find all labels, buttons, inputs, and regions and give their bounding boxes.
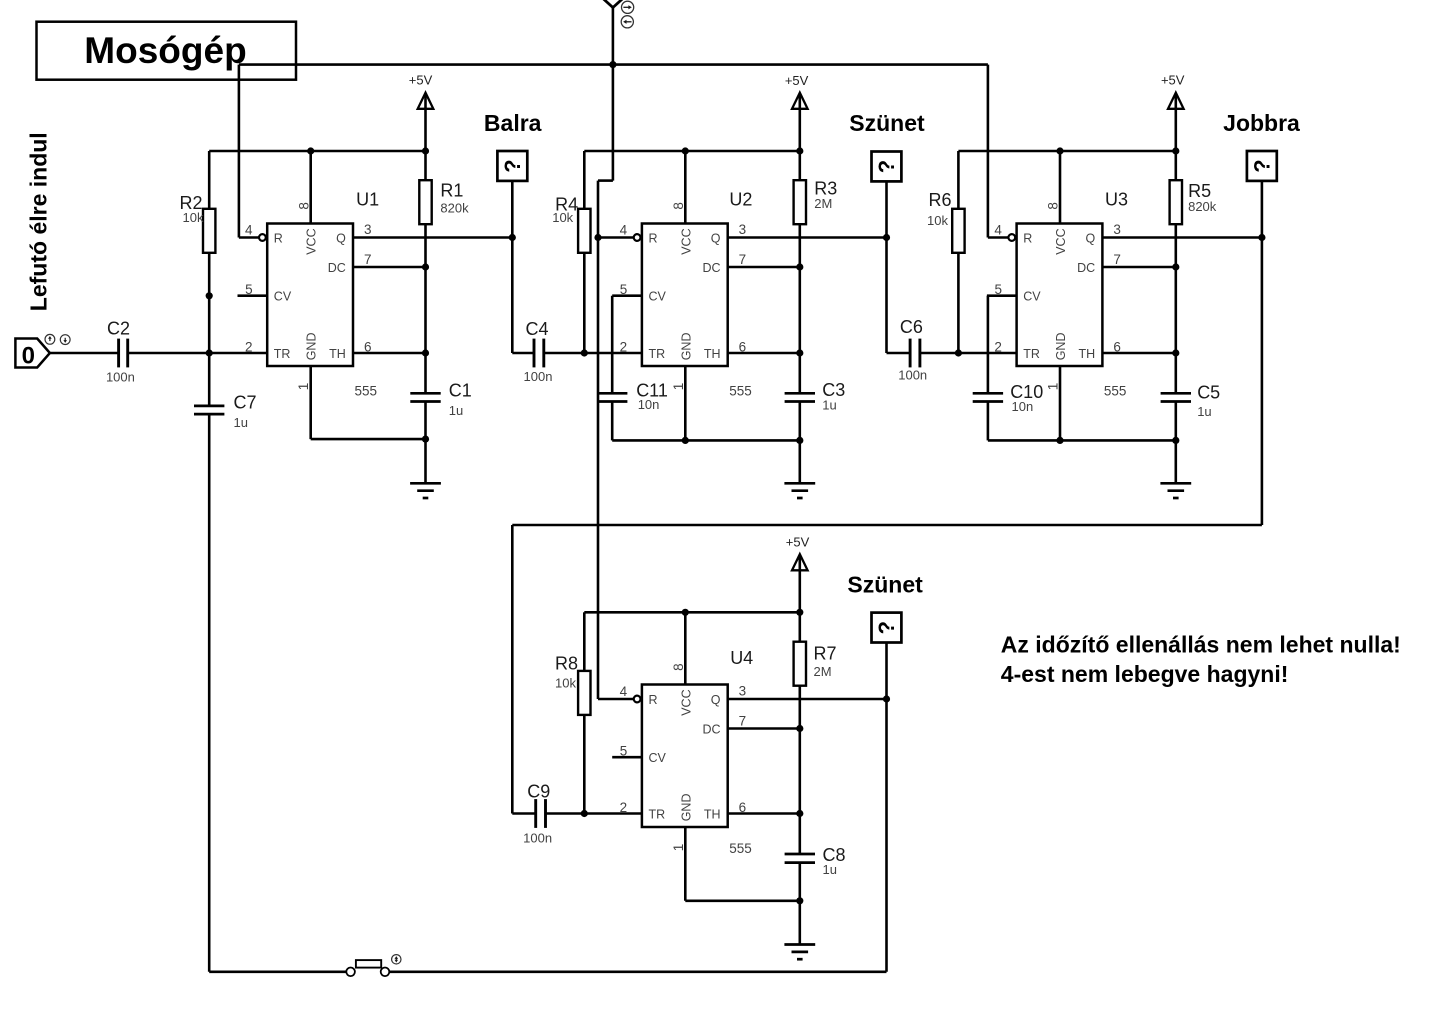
resistor R1 (820k) (424, 151, 427, 180)
svg-text:R: R (274, 232, 283, 246)
svg-text:Lefutó élre indul: Lefutó élre indul (26, 132, 52, 311)
svg-text:10k: 10k (555, 676, 576, 691)
svg-text:TH: TH (704, 347, 721, 361)
wire: pin 8 VCC (U1) (309, 151, 312, 224)
svg-text:C7: C7 (234, 392, 257, 412)
svg-text:C9: C9 (527, 782, 550, 802)
svg-text:Q: Q (711, 693, 721, 707)
inverter bubble pin 4 (U4) (634, 696, 641, 703)
svg-text:?: ? (500, 159, 525, 172)
junction: R4 to TR row (581, 349, 588, 356)
wire: pin 6 threshold (U1) (353, 352, 426, 355)
inverter bubble pin 4 (U2) (634, 234, 641, 241)
pushbutton switch (346, 968, 355, 977)
svg-text:7: 7 (364, 252, 372, 267)
wire: C4 to U2 TR (544, 352, 642, 355)
wire: Szünet box to U2 Q (885, 181, 888, 237)
capacitor C5 (1u) (1161, 392, 1191, 395)
wire: pin 8 VCC (U4) (684, 612, 687, 684)
svg-text:1u: 1u (822, 397, 836, 412)
svg-text:7: 7 (739, 252, 747, 267)
svg-text:GND: GND (305, 333, 319, 361)
wire: +5V rail (U3) (958, 150, 1175, 153)
inverter bubble pin 4 (U3) (1008, 234, 1015, 241)
svg-text:TR: TR (274, 347, 291, 361)
svg-text:4: 4 (620, 684, 628, 699)
capacitor C3 (1u) (785, 392, 815, 395)
svg-text:U3: U3 (1105, 189, 1128, 209)
svg-text:CV: CV (274, 290, 292, 304)
+5V power symbol (U4) (792, 554, 808, 570)
wire: +5V rail (U4) (584, 611, 800, 614)
svg-text:7: 7 (1113, 252, 1121, 267)
svg-text:6: 6 (739, 339, 747, 354)
wire: U1 GND net horizontal (311, 438, 426, 441)
svg-text:CV: CV (1023, 290, 1041, 304)
svg-text:DC: DC (702, 723, 720, 737)
wire: pin 5 CV stub (U4) (612, 756, 642, 759)
svg-text:R: R (649, 693, 658, 707)
svg-text:C2: C2 (107, 319, 130, 339)
555 timer IC U1 body (267, 224, 353, 367)
+5V power symbol (U1) (418, 93, 434, 109)
wire: pin 5 CV stub (U2) (612, 294, 642, 297)
555 timer IC U4 body (642, 685, 728, 828)
svg-text:TR: TR (1023, 347, 1040, 361)
svg-text:3: 3 (739, 222, 747, 237)
svg-text:CV: CV (649, 290, 667, 304)
svg-text:+5V: +5V (409, 73, 433, 88)
svg-text:VCC: VCC (305, 228, 319, 254)
junction: R2 to TR row (206, 349, 213, 356)
svg-text:1u: 1u (234, 415, 248, 430)
wire: pin 8 VCC (U3) (1059, 151, 1062, 224)
svg-text:R7: R7 (814, 643, 837, 663)
555 timer IC U3 body (1017, 224, 1103, 367)
wire: reset net jog to U2/U4 pin 4 feed (612, 65, 615, 181)
svg-text:U4: U4 (730, 648, 753, 668)
capacitor C11 (10n) on U2 CV (611, 296, 614, 394)
junction: U2 Q node (883, 234, 890, 241)
junction: R6 to TR row (955, 349, 962, 356)
svg-text:8: 8 (671, 663, 686, 671)
wire: pin 7 discharge (U1) (353, 266, 426, 269)
wire: U1 Q down to C4 (511, 238, 514, 354)
svg-text:+5V: +5V (1161, 73, 1185, 88)
svg-text:5: 5 (620, 282, 628, 297)
svg-text:DC: DC (1077, 261, 1095, 275)
wire: U2 Q down to C6 (885, 238, 888, 354)
svg-text:8: 8 (1046, 202, 1061, 210)
wire: Balra box to U1 Q (511, 181, 514, 238)
capacitor C6 (100n) (909, 339, 912, 368)
title box Mosógép (37, 22, 297, 80)
svg-text:2: 2 (994, 339, 1002, 354)
junction: GND net (U1) (422, 436, 429, 443)
wire: pin 4 reset (U2) (598, 236, 634, 239)
+5V power symbol (U2) (792, 93, 808, 109)
svg-text:820k: 820k (440, 201, 469, 216)
svg-text:?: ? (1249, 159, 1274, 172)
junction: pin 7 to R3 (796, 263, 803, 270)
svg-text:10k: 10k (927, 213, 948, 228)
test point box Szünet bottom (?) (872, 613, 902, 643)
svg-text:C4: C4 (525, 319, 548, 339)
svg-text:555: 555 (1104, 383, 1127, 398)
junction: U1 Q node (509, 234, 516, 241)
wire: Jobbra box to U3 Q (1261, 181, 1264, 238)
ground symbol (U4) (784, 943, 815, 946)
svg-text:820k: 820k (1188, 199, 1217, 214)
wire: pin 6 threshold (U4) (728, 812, 800, 815)
junction: reset net / top connector (609, 61, 616, 68)
wire: TR row from C2 to U1 pin 2 (128, 352, 268, 355)
svg-text:U2: U2 (729, 190, 752, 210)
junction: R7 to rail (796, 609, 803, 616)
capacitor C1 (1u) (410, 392, 440, 395)
svg-text:TR: TR (649, 347, 666, 361)
junction: U3 GND pin (1056, 437, 1063, 444)
wire: +5V rail (U1) (209, 150, 425, 153)
junction: pin 7 to R7 (796, 725, 803, 732)
wire: U4 Q down to bottom rail (885, 699, 888, 972)
svg-text:0: 0 (22, 342, 35, 369)
junction: pin 6 to R1 (422, 349, 429, 356)
svg-text:6: 6 (1113, 339, 1121, 354)
wire: reset net drop to U3 pin 4 (987, 65, 990, 238)
resistor R8 (10k) (583, 612, 586, 671)
junction: R8 to TR row (581, 810, 588, 817)
test point box Balra (?) (497, 151, 527, 181)
wire: reset net horizontal rail (239, 63, 988, 66)
switch action badge (392, 955, 401, 964)
svg-text:GND: GND (679, 333, 693, 361)
wire: pin 8 VCC (U2) (684, 151, 687, 224)
wire: U4 GND net horizontal (685, 899, 800, 902)
svg-text:Q: Q (336, 232, 346, 246)
svg-text:Jobbra: Jobbra (1223, 110, 1300, 136)
wire: reset net vertical from title box (238, 65, 241, 238)
connector 0 (input pin) (15, 339, 50, 368)
resistor R2 (10k) (208, 151, 211, 209)
svg-text:4: 4 (245, 222, 253, 237)
svg-text:2M: 2M (814, 196, 832, 211)
wire: pin 1 GND (U3) (1059, 366, 1062, 440)
svg-text:CV: CV (649, 751, 667, 765)
svg-text:5: 5 (994, 282, 1002, 297)
wire: U3 Q loop down and across to C9 (1261, 238, 1264, 526)
svg-text:GND: GND (679, 794, 693, 822)
svg-text:DC: DC (702, 261, 720, 275)
ground symbol (U3) (1160, 482, 1191, 485)
svg-text:1u: 1u (1197, 404, 1211, 419)
junction: R1 to rail (422, 147, 429, 154)
svg-text:DC: DC (328, 261, 346, 275)
junction: GND net (U2) (796, 437, 803, 444)
ground symbol (U2) (784, 482, 815, 485)
svg-text:1u: 1u (449, 403, 463, 418)
svg-text:VCC: VCC (679, 689, 693, 715)
wire: bottom return rail right (389, 970, 886, 973)
svg-text:5: 5 (620, 744, 628, 759)
svg-text:4: 4 (620, 222, 628, 237)
wire: pin 1 GND (U1) (309, 366, 312, 439)
wire: pin 4 reset (U3) (988, 236, 1009, 239)
junction: floating tap on R2 line (206, 292, 213, 299)
test point box Szünet top (?) (872, 152, 902, 182)
resistor R3 (2M) (798, 151, 801, 180)
wire: pin 4 reset (U1) (239, 236, 259, 239)
svg-text:1: 1 (671, 844, 686, 852)
wire: C6 to U3 TR (920, 352, 1017, 355)
junction: VCC to rail (U3) (1056, 147, 1063, 154)
wire: Szünet box to U4 Q (885, 643, 888, 700)
svg-text:Szünet: Szünet (849, 110, 925, 136)
svg-text:VCC: VCC (679, 228, 693, 254)
svg-text:10n: 10n (638, 397, 660, 412)
svg-text:TH: TH (329, 347, 346, 361)
resistor R6 (10k) (957, 151, 960, 209)
junction: pin 6 to R7 (796, 810, 803, 817)
svg-text:U1: U1 (356, 190, 379, 210)
junction: U2 GND pin (682, 437, 689, 444)
junction: VCC to rail (U4) (682, 609, 689, 616)
svg-text:Q: Q (1085, 232, 1095, 246)
svg-text:R8: R8 (555, 654, 578, 674)
svg-text:3: 3 (1113, 222, 1121, 237)
svg-text:C6: C6 (900, 317, 923, 337)
top connector direction badges (622, 1, 634, 13)
wire: U3 GND net horizontal (988, 439, 1176, 442)
svg-text:R: R (649, 232, 658, 246)
wire: pin 7 discharge (U3) (1102, 266, 1175, 269)
wire: pin 3 Q output (U2) (728, 236, 887, 239)
junction: U3 Q node (1258, 234, 1265, 241)
junction: U4 Q node (883, 695, 890, 702)
capacitor C8 (1u) (785, 853, 815, 856)
capacitor C2 (100n) (50, 352, 119, 355)
svg-text:Balra: Balra (484, 110, 542, 136)
top connector (partial, points down) (604, 0, 623, 8)
svg-text:2: 2 (620, 800, 628, 815)
wire: pin 5 CV stub (U1) (238, 294, 268, 297)
junction: VCC to rail (U1) (307, 147, 314, 154)
junction: R5 to rail (1172, 147, 1179, 154)
svg-text:555: 555 (355, 383, 378, 398)
svg-text:TR: TR (649, 808, 666, 822)
wire: C9 to U4 TR (546, 812, 642, 815)
svg-text:100n: 100n (524, 369, 553, 384)
svg-text:GND: GND (1054, 333, 1068, 361)
svg-text:R6: R6 (928, 190, 951, 210)
svg-text:10n: 10n (1012, 399, 1034, 414)
resistor R5 (820k) (1175, 151, 1178, 180)
wire: pin 3 Q output (U3) (1102, 236, 1262, 239)
junction: pin 7 to R1 (422, 263, 429, 270)
svg-text:100n: 100n (106, 369, 135, 384)
junction: pin 6 to R3 (796, 349, 803, 356)
svg-text:8: 8 (296, 202, 311, 210)
resistor R7 (2M) (798, 612, 801, 641)
svg-text:4: 4 (994, 222, 1002, 237)
svg-text:?: ? (874, 160, 899, 173)
svg-text:C1: C1 (449, 381, 472, 401)
junction: U2 pin 4 tap (594, 234, 601, 241)
wire: +5V rail (U2) (584, 150, 800, 153)
svg-text:10k: 10k (183, 210, 204, 225)
junction: R3 to rail (796, 147, 803, 154)
wire: pin 3 Q output (U1) (353, 236, 512, 239)
junction: VCC to rail (U2) (682, 147, 689, 154)
capacitor C4 (100n) (533, 339, 536, 368)
+5V power symbol (U3) (1168, 93, 1184, 109)
junction: GND net (U4) (796, 897, 803, 904)
wire: pin 6 threshold (U2) (728, 352, 800, 355)
test point box Jobbra (?) (1247, 151, 1277, 181)
svg-text:+5V: +5V (786, 534, 810, 549)
capacitor C10 (10n) on U3 CV (987, 296, 990, 394)
ground symbol (U1) (410, 482, 441, 485)
svg-text:1: 1 (1046, 383, 1061, 391)
wire: pin 5 CV stub (U3) (987, 294, 1017, 297)
capacitor C9 (100n) (534, 799, 537, 828)
inverter bubble pin 4 (U1) (259, 234, 266, 241)
svg-text:R5: R5 (1188, 181, 1211, 201)
svg-text:7: 7 (739, 714, 747, 729)
svg-text:10k: 10k (552, 210, 573, 225)
svg-text:VCC: VCC (1054, 228, 1068, 254)
svg-text:5: 5 (245, 282, 253, 297)
wire: pin 7 discharge (U4) (728, 727, 800, 730)
svg-text:6: 6 (739, 800, 747, 815)
junction: pin 7 to R5 (1172, 263, 1179, 270)
wire: pin 1 GND (U2) (684, 366, 687, 440)
svg-text:1: 1 (671, 383, 686, 391)
svg-text:3: 3 (739, 684, 747, 699)
svg-text:R: R (1023, 232, 1032, 246)
svg-text:TH: TH (704, 808, 721, 822)
svg-text:4-est nem lebegve hagyni!: 4-est nem lebegve hagyni! (1001, 661, 1289, 687)
svg-text:Q: Q (711, 232, 721, 246)
svg-text:+5V: +5V (785, 73, 809, 88)
wire: pin 4 reset (U4) (598, 698, 634, 701)
wire: top connector down to reset net (612, 8, 615, 65)
svg-text:C5: C5 (1197, 383, 1220, 403)
svg-text:100n: 100n (523, 831, 552, 846)
junction: pin 6 to R5 (1172, 349, 1179, 356)
capacitor C7 (1u) (194, 405, 224, 408)
svg-text:100n: 100n (898, 367, 927, 382)
svg-text:Mosógép: Mosógép (84, 30, 246, 71)
svg-text:TH: TH (1079, 347, 1096, 361)
svg-text:555: 555 (729, 841, 752, 856)
svg-text:1u: 1u (823, 862, 837, 877)
wire: pin 3 Q output (U4) (728, 698, 887, 701)
svg-text:Az időzítő ellenállás nem lehe: Az időzítő ellenállás nem lehet nulla! (1001, 631, 1401, 657)
svg-text:Szünet: Szünet (847, 571, 923, 597)
svg-text:1: 1 (296, 383, 311, 391)
svg-text:3: 3 (364, 222, 372, 237)
svg-text:6: 6 (364, 339, 372, 354)
svg-text:555: 555 (729, 383, 752, 398)
wire: pin 1 GND (U4) (684, 827, 687, 901)
svg-text:R1: R1 (440, 180, 463, 200)
svg-text:8: 8 (671, 202, 686, 210)
555 timer IC U2 body (642, 224, 728, 367)
wire: pin 7 discharge (U2) (728, 266, 800, 269)
junction: GND net (U3) (1172, 437, 1179, 444)
wire: U2 GND net horizontal (612, 439, 800, 442)
svg-text:?: ? (874, 621, 899, 634)
wire: pin 6 threshold (U3) (1102, 352, 1175, 355)
svg-text:2M: 2M (814, 664, 832, 679)
connector 0 direction badges (45, 334, 55, 344)
resistor R4 (10k) (583, 151, 586, 209)
svg-text:2: 2 (620, 339, 628, 354)
wire: bottom return rail left (209, 970, 346, 973)
